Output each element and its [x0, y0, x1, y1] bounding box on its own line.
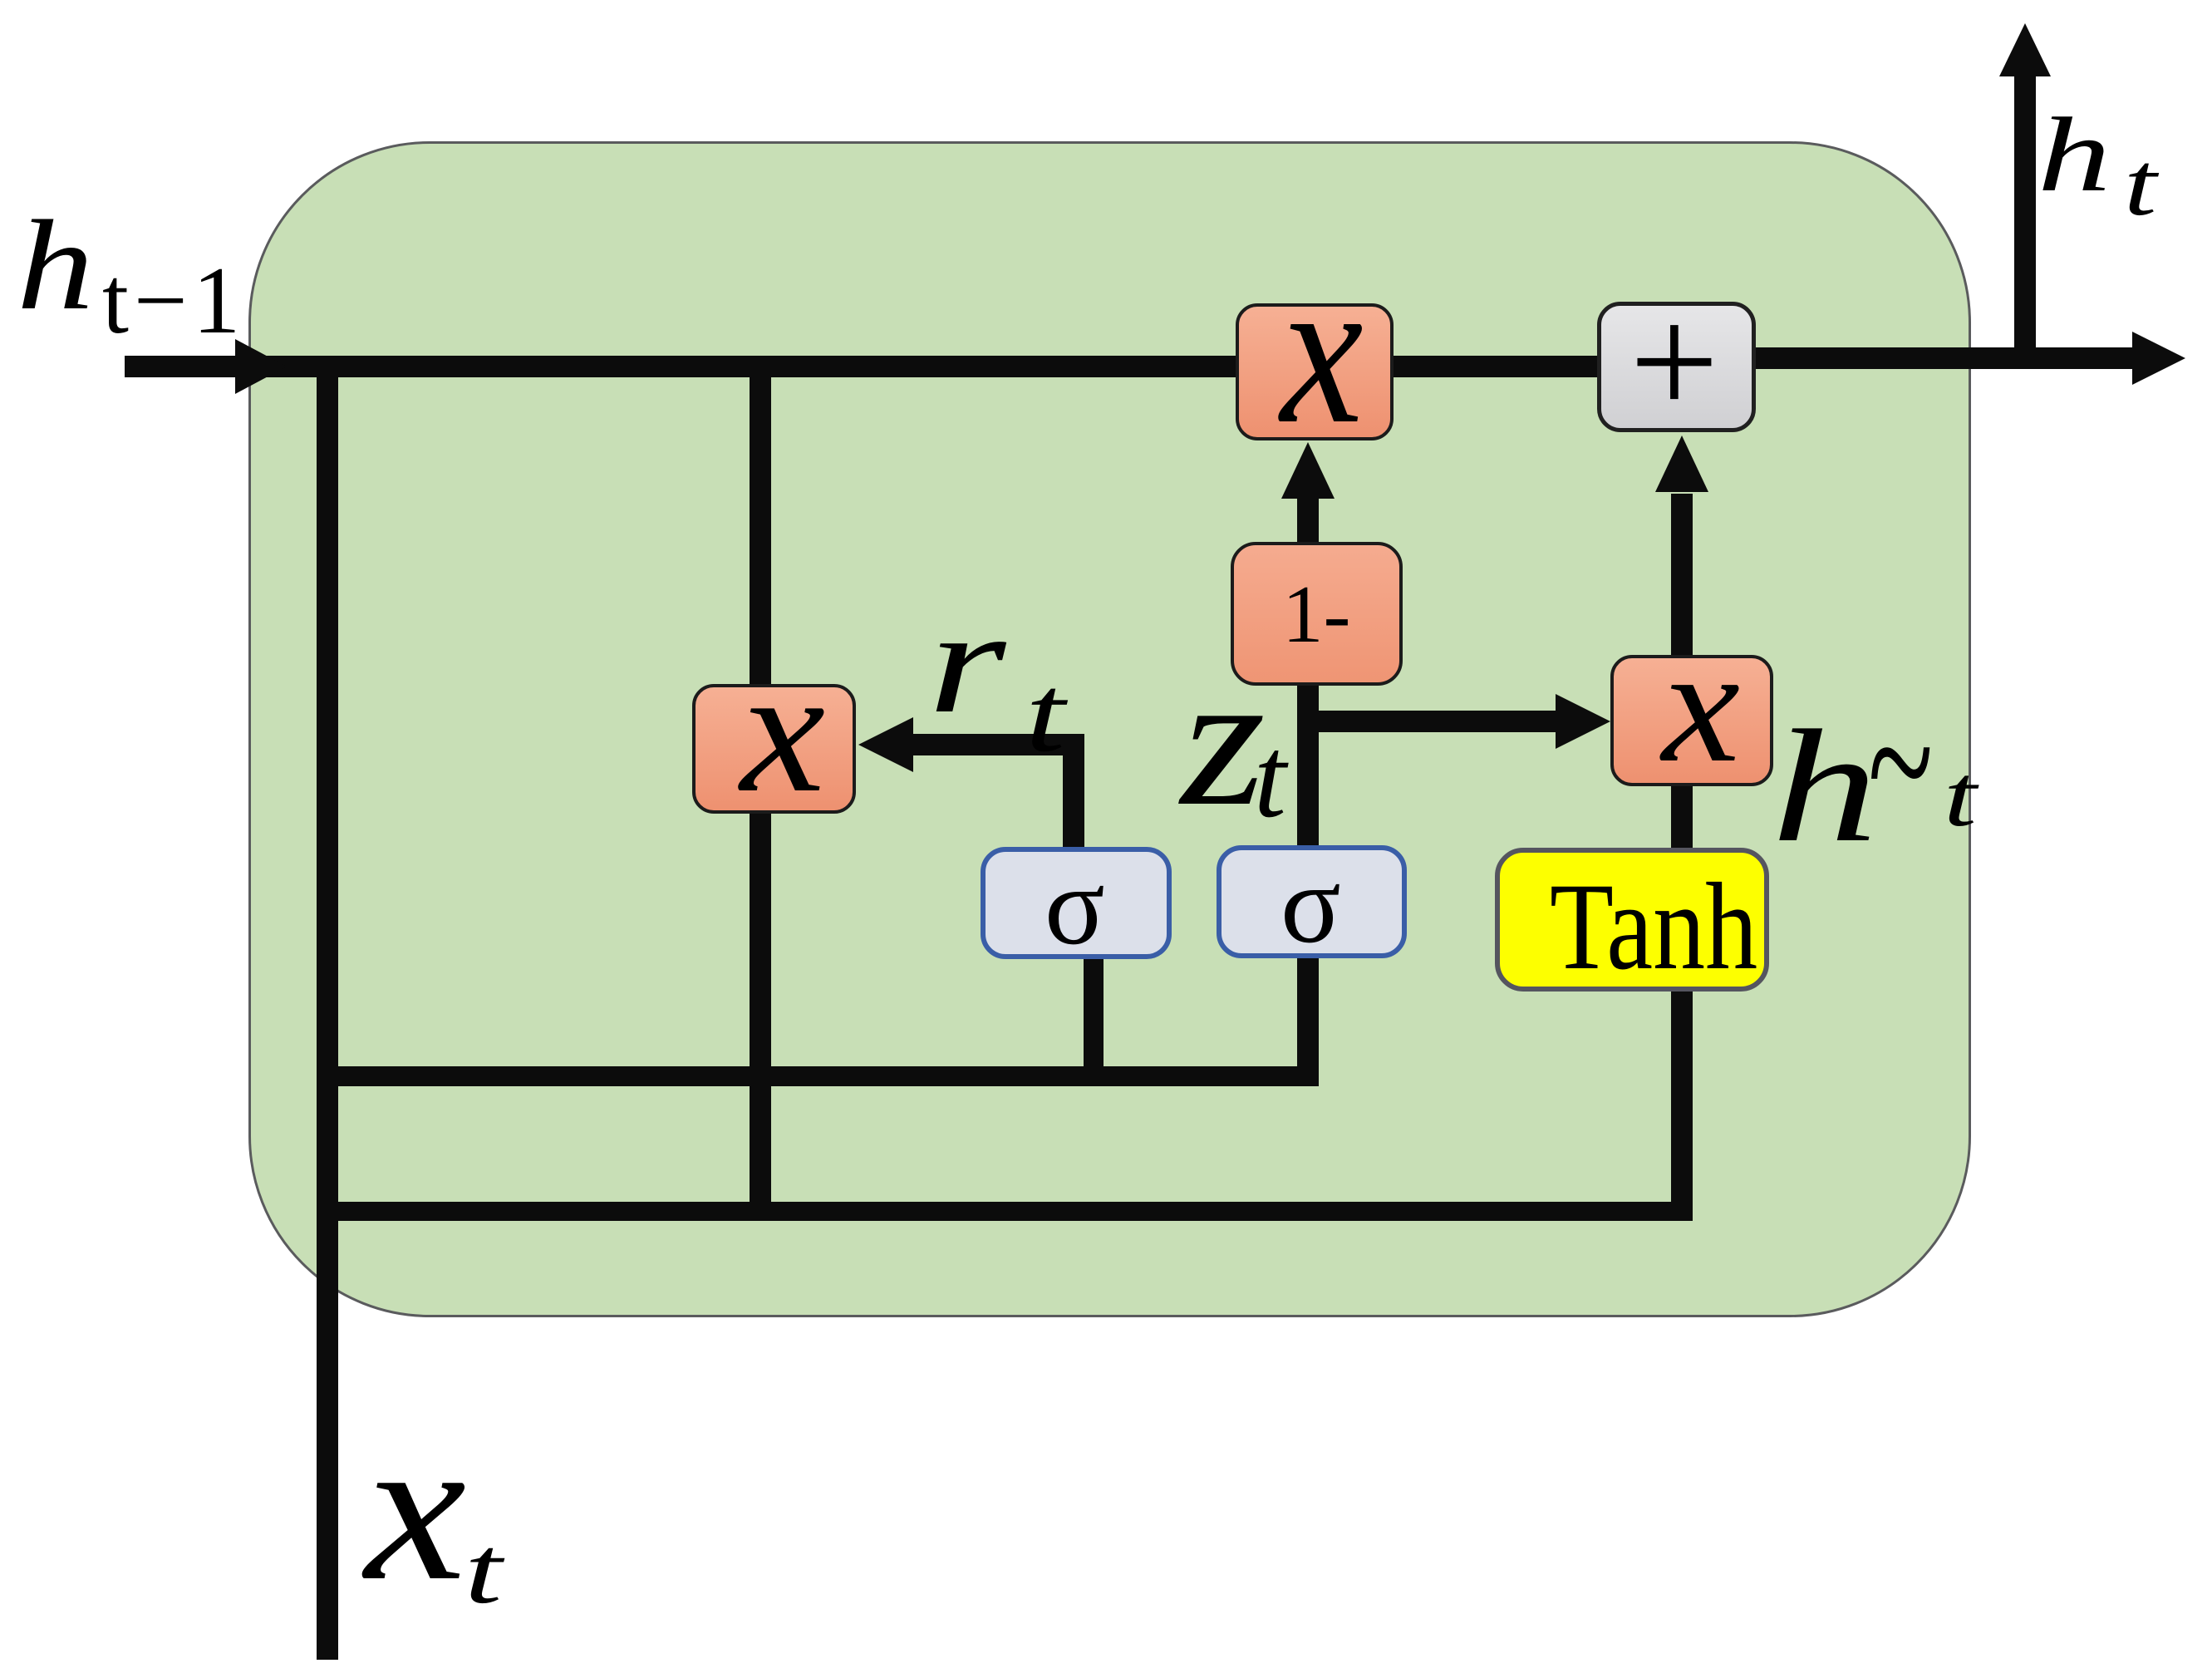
wire: inner horizontal line A: [317, 1066, 1319, 1086]
wire: Tanh top to right x box: [1671, 785, 1693, 851]
label h~_t: h: [1772, 706, 1878, 867]
multiplier box X (update gate on main line): [1236, 303, 1394, 440]
wire: z_t vertical (sigma2 up through 1- box to x box): [1297, 497, 1319, 846]
wire: r_t corner vertical down to sigma1: [1063, 734, 1084, 850]
arrowhead at right end of main output line: [2132, 332, 2185, 385]
wire: r_t horizontal into reset x box: [912, 734, 1084, 755]
label h~_t: subscript t: [1944, 752, 1977, 840]
sigma box 2 (update gate): [1217, 845, 1407, 958]
arrowhead at top of h_t axis: [1999, 23, 2051, 76]
arrowhead into top x box: [1281, 442, 1335, 499]
arrowhead into reset x box (pointing left): [858, 717, 913, 772]
label X_t: subscript t: [465, 1523, 502, 1619]
wire: output segment right of adder: [1753, 347, 2136, 369]
wire: line B corner up to Tanh: [1671, 986, 1693, 1221]
glyph sigma 2: [1281, 849, 1341, 961]
label h~_t: tilde: [1868, 670, 1933, 857]
sigma box 1 (reset gate): [981, 847, 1172, 959]
wire: line A corner up to sigma2: [1297, 954, 1319, 1086]
label z_t: z: [1181, 644, 1266, 835]
label r_t: subscript t: [1025, 659, 1065, 769]
adder box +: [1597, 302, 1756, 432]
label h_t: h: [2037, 101, 2111, 208]
label Tanh: [1550, 864, 1757, 989]
arrowhead on main line at cell left edge: [235, 339, 287, 394]
label z_t: subscript t: [1254, 720, 1286, 836]
glyph x of update multiplier: [1281, 245, 1364, 457]
1- box: [1231, 542, 1403, 686]
wire: sigma1 bottom stub down to inner line A: [1084, 956, 1104, 1086]
wire: z_t branch horizontal to right x box: [1297, 711, 1556, 732]
wire: right x box up to + box: [1671, 494, 1693, 657]
GRU cell body (green rounded rectangle): [248, 141, 1971, 1317]
glyph x of candidate multiplier: [1662, 623, 1740, 788]
label r_t: r: [928, 588, 1006, 736]
wire: h_t vertical axis: [2014, 75, 2036, 369]
multiplier box X (reset gate): [692, 684, 856, 814]
arrowhead into + box: [1655, 435, 1708, 492]
multiplier box X (candidate h~ multiplier): [1610, 655, 1773, 786]
wire: X_t vertical line: [317, 357, 338, 1660]
label h_(t-1): h: [17, 201, 94, 330]
label h_(t-1): subscript t-1: [102, 253, 245, 348]
wire: inner horizontal line B: [317, 1202, 1693, 1221]
wire: main h(t-1) horizontal line: [125, 356, 1756, 377]
wire: reset-path vertical (h(t-1) branch down through x box): [750, 357, 771, 1221]
arrowhead into right x box: [1556, 694, 1610, 749]
glyph sigma 1: [1045, 850, 1105, 962]
glyph x of reset multiplier: [740, 641, 825, 819]
Tanh box: [1495, 848, 1769, 992]
glyph + of adder: [1630, 283, 1719, 441]
label h_t: subscript t: [2124, 139, 2156, 229]
label X_t: x: [365, 1405, 466, 1613]
label 1-: [1282, 573, 1350, 656]
